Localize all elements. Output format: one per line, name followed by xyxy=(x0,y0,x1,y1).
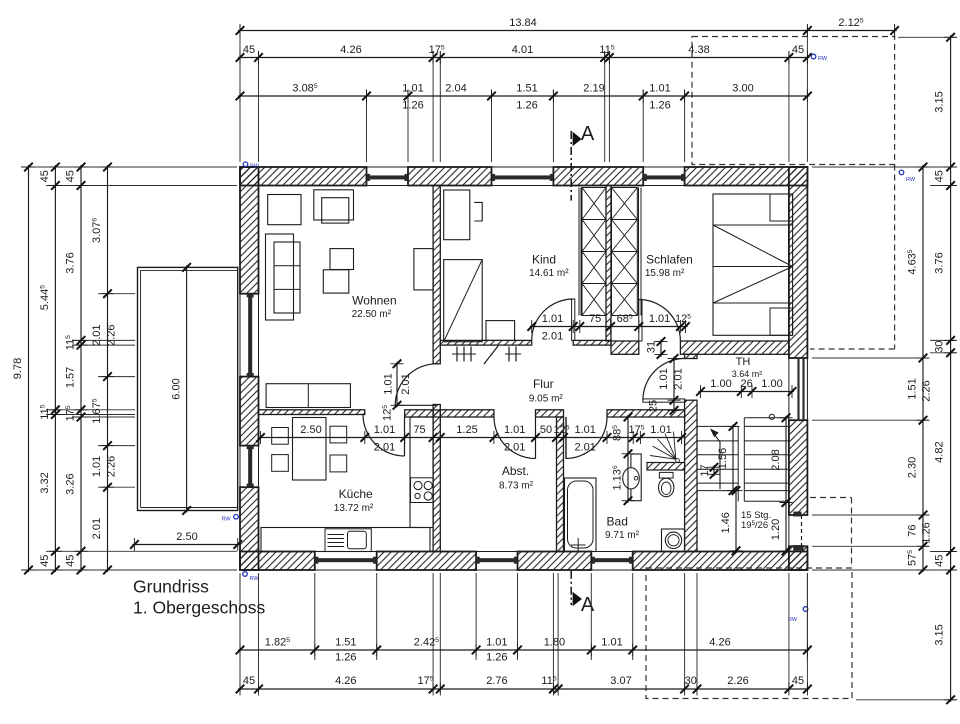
svg-text:2.26: 2.26 xyxy=(921,380,933,401)
svg-text:1.01: 1.01 xyxy=(649,83,670,95)
svg-text:Kind: Kind xyxy=(532,253,556,267)
furniture: Schlafen wardrobe (X boxes) xyxy=(612,188,638,220)
dim: TH door vertical xyxy=(673,357,675,413)
wall: Schlafen/TH bottom wall xyxy=(680,341,789,354)
svg-text:45: 45 xyxy=(934,555,946,567)
svg-text:1.26: 1.26 xyxy=(921,522,933,543)
radiator symbol in Flur xyxy=(456,347,458,362)
svg-text:TH: TH xyxy=(736,356,751,368)
window: top wall Wohnen xyxy=(367,166,409,168)
furniture: Kueche counter east xyxy=(410,417,433,528)
svg-text:45: 45 xyxy=(934,170,946,182)
svg-text:3.76: 3.76 xyxy=(65,252,77,273)
svg-text:4.38: 4.38 xyxy=(688,44,709,56)
dim: stairs 1.20 xyxy=(785,501,787,554)
furniture: Kind wardrobe (X boxes) xyxy=(582,188,606,220)
wall: outer right, lower segment xyxy=(789,546,808,570)
wall: outer bottom, segment 3 xyxy=(518,552,592,571)
extension lines top xyxy=(239,25,241,162)
svg-text:45: 45 xyxy=(792,675,804,687)
svg-text:9.71 m²: 9.71 m² xyxy=(605,530,640,541)
dim chain: left overall 9.78 xyxy=(28,165,30,572)
stairs: walk line with arrow xyxy=(712,431,721,490)
wall: outer top, east segment xyxy=(685,167,808,186)
svg-text:9.05 m²: 9.05 m² xyxy=(529,394,564,405)
dashed outline: top-right area xyxy=(692,37,895,165)
svg-text:3.00: 3.00 xyxy=(732,83,753,95)
svg-text:2.01: 2.01 xyxy=(91,518,103,539)
dim chain: TH interior 1.00/26/1.00 xyxy=(699,391,795,393)
svg-text:2.04: 2.04 xyxy=(445,83,466,95)
svg-text:1.01: 1.01 xyxy=(574,424,595,436)
svg-text:76: 76 xyxy=(907,524,919,536)
dashed line: right side vertical x=894.6 xyxy=(894,165,896,350)
svg-text:1.01: 1.01 xyxy=(486,637,507,649)
window: top wall Schlafen xyxy=(643,166,684,168)
svg-text:195/26: 195/26 xyxy=(741,520,768,531)
svg-text:2.26: 2.26 xyxy=(727,675,748,687)
svg-text:1.26: 1.26 xyxy=(402,100,423,112)
dim: stair tread 17 xyxy=(713,465,715,476)
svg-text:1.01: 1.01 xyxy=(383,373,395,394)
wall: Wohnen/Kind partition upper xyxy=(433,186,440,364)
svg-text:A: A xyxy=(581,123,595,145)
svg-text:1.01: 1.01 xyxy=(504,424,525,436)
svg-text:RW: RW xyxy=(250,576,260,582)
window: bottom wall Abst xyxy=(476,551,517,553)
stairs: newel circle xyxy=(769,414,774,419)
furniture: Wohnen sideboard east xyxy=(414,249,433,290)
wall: Kueche/Abst partition xyxy=(433,410,440,552)
wall: outer bottom, Kueche segment xyxy=(240,552,315,571)
svg-text:1.51: 1.51 xyxy=(907,378,919,399)
svg-text:26: 26 xyxy=(740,378,752,390)
wall: Flur south wall Abst/Bad piece xyxy=(536,410,564,417)
dim chain: top wall axes xyxy=(238,57,809,59)
svg-text:1.57: 1.57 xyxy=(65,367,77,388)
svg-text:3.15: 3.15 xyxy=(934,91,946,112)
dim chain: bottom openings xyxy=(238,649,809,651)
svg-text:2.76: 2.76 xyxy=(486,675,507,687)
door arc: Abst door xyxy=(494,417,536,459)
svg-text:1.80: 1.80 xyxy=(544,637,565,649)
svg-text:1.20: 1.20 xyxy=(770,519,782,540)
wall: Bad north wall xyxy=(607,410,685,417)
door arc: Kind door with leaf xyxy=(532,299,574,340)
furniture: Wohnen sofa 2 (south wall) xyxy=(266,384,350,408)
svg-text:Schlafen: Schlafen xyxy=(646,253,693,267)
svg-text:Küche: Küche xyxy=(339,487,373,501)
svg-text:2.19: 2.19 xyxy=(583,83,604,95)
svg-text:Wohnen: Wohnen xyxy=(352,294,396,308)
wall: shower stub wall xyxy=(647,463,685,471)
dim chain: left openings xyxy=(107,165,109,572)
wall: Kind/Schlafen partition xyxy=(606,186,611,342)
furniture: Kueche sink xyxy=(325,529,371,552)
dashed line: x=851.5 xyxy=(851,498,853,569)
svg-text:15.98 m²: 15.98 m² xyxy=(645,268,685,279)
svg-text:14.61 m²: 14.61 m² xyxy=(529,268,569,279)
wall: Flur south wall west of Abst door xyxy=(440,410,494,417)
wall: TH/stair west wall xyxy=(685,400,697,551)
svg-text:RW: RW xyxy=(250,164,260,170)
door arc: Wohnen door xyxy=(395,364,437,406)
extension lines left xyxy=(21,166,237,168)
furniture: Kind chair xyxy=(474,202,482,221)
wall: Kueche door east pier xyxy=(405,410,433,417)
svg-text:2.01: 2.01 xyxy=(504,442,525,454)
balcony outline xyxy=(138,267,238,510)
svg-text:13.72 m²: 13.72 m² xyxy=(334,503,374,514)
RW marker right xyxy=(899,170,904,175)
svg-text:45: 45 xyxy=(39,555,51,567)
svg-text:1.46: 1.46 xyxy=(720,512,732,533)
furniture: Wohnen sofa (left wall) xyxy=(266,234,294,320)
svg-text:8.73 m²: 8.73 m² xyxy=(499,481,534,492)
svg-text:1.56: 1.56 xyxy=(717,448,729,469)
RW marker balcony xyxy=(234,515,239,520)
wall: Wohnen door pier xyxy=(433,405,440,418)
wall: Kind bottom east of door xyxy=(573,340,611,345)
svg-text:1.01: 1.01 xyxy=(658,368,670,389)
svg-text:31: 31 xyxy=(646,341,658,353)
svg-text:1.01: 1.01 xyxy=(649,313,670,325)
door arc: Bad door xyxy=(566,417,608,459)
dim: stairs 1.56 xyxy=(732,424,734,492)
furniture: Bad sink xyxy=(623,468,640,489)
svg-text:45: 45 xyxy=(65,555,77,567)
svg-text:Bad: Bad xyxy=(607,514,628,528)
svg-text:2.01: 2.01 xyxy=(91,324,103,345)
dim: stairs 1.46 xyxy=(735,489,737,553)
svg-text:1.01: 1.01 xyxy=(650,424,671,436)
svg-text:45: 45 xyxy=(39,170,51,182)
svg-text:RW: RW xyxy=(818,56,828,62)
dashed line: y=349 toward building xyxy=(810,348,895,350)
svg-text:1.51: 1.51 xyxy=(335,637,356,649)
window: right wall TH window (double glazing bars) xyxy=(788,358,790,420)
svg-text:1.26: 1.26 xyxy=(516,100,537,112)
svg-text:25: 25 xyxy=(648,400,660,412)
svg-text:9.78: 9.78 xyxy=(12,358,24,379)
wall: TH west wall stub above door xyxy=(685,354,697,358)
wall: outer top, Kind/Schlafen segment xyxy=(553,167,643,186)
svg-text:1.00: 1.00 xyxy=(761,378,782,390)
stairs: treads right flight xyxy=(744,417,789,419)
extension lines right xyxy=(898,36,956,38)
extension lines bottom xyxy=(239,573,241,660)
window: left wall Kueche window xyxy=(239,446,241,488)
furniture: Kueche counter bottom xyxy=(261,528,430,552)
svg-text:1.26: 1.26 xyxy=(335,652,356,664)
dim: Schlafen/TH wall 31 xyxy=(660,340,662,357)
svg-text:2.50: 2.50 xyxy=(176,531,197,543)
dashed line: y=497.5 xyxy=(810,497,852,499)
dim: balcony 2.50 xyxy=(132,544,239,546)
dim chain: interior Flur/Kueche/Bad doors xyxy=(259,437,684,439)
svg-text:2.01: 2.01 xyxy=(542,331,563,343)
svg-text:2.50: 2.50 xyxy=(300,424,321,436)
dim: Wohnen door vertical xyxy=(396,362,398,408)
furniture: Kind bed with diagonal xyxy=(444,260,483,342)
wall: outer top, west segment xyxy=(240,167,367,186)
furniture: Bad half wall stub xyxy=(631,454,641,501)
svg-text:3.07: 3.07 xyxy=(610,675,631,687)
svg-text:1. Obergeschoss: 1. Obergeschoss xyxy=(133,598,266,618)
furniture: Wohnen armchair 1 xyxy=(268,195,301,225)
wall: Schlafen bottom west of door xyxy=(611,341,639,354)
svg-text:45: 45 xyxy=(243,44,255,56)
dim: Bad niche 88.5 and 1.13 xyxy=(627,415,629,503)
svg-text:45: 45 xyxy=(243,675,255,687)
svg-text:4.82: 4.82 xyxy=(934,441,946,462)
dim chain: bottom wall axes xyxy=(238,688,809,690)
svg-text:3.15: 3.15 xyxy=(934,624,946,645)
furniture: Schlafen double bed xyxy=(713,194,793,335)
furniture: Kueche dining table xyxy=(293,418,327,481)
dim chain: left no.2 xyxy=(54,165,56,572)
RW marker bottom-right xyxy=(803,607,808,612)
svg-text:1.01: 1.01 xyxy=(374,424,395,436)
svg-text:1.01: 1.01 xyxy=(601,637,622,649)
svg-text:3.64 m²: 3.64 m² xyxy=(732,369,763,379)
svg-text:75: 75 xyxy=(589,313,601,325)
door arc: Kueche door xyxy=(363,415,405,457)
svg-text:1.00: 1.00 xyxy=(710,378,731,390)
furniture: Wohnen coffee tables xyxy=(330,249,354,270)
window: top wall Kind xyxy=(492,166,554,168)
wall: outer bottom, segment 2 xyxy=(377,552,476,571)
svg-text:17: 17 xyxy=(699,464,711,476)
svg-text:Grundriss: Grundriss xyxy=(133,577,209,597)
wall: outer left, lower segment xyxy=(240,487,259,570)
section marker A (top) xyxy=(570,131,572,201)
bathtub faucet cross xyxy=(571,544,586,546)
wall: outer top, Wohnen/Kind segment xyxy=(408,167,492,186)
svg-text:22.50 m²: 22.50 m² xyxy=(352,309,392,320)
svg-text:2.30: 2.30 xyxy=(907,457,919,478)
furniture: Kueche chairs xyxy=(272,428,289,445)
svg-text:1.51: 1.51 xyxy=(516,83,537,95)
svg-text:RW: RW xyxy=(222,517,232,523)
svg-text:1.01: 1.01 xyxy=(402,83,423,95)
svg-text:3.76: 3.76 xyxy=(934,252,946,273)
section marker A (bottom) xyxy=(570,571,572,605)
svg-text:13.84: 13.84 xyxy=(509,17,537,29)
furniture: bathtub xyxy=(565,478,597,552)
svg-text:2.01: 2.01 xyxy=(574,442,595,454)
dim chain: right openings xyxy=(922,165,924,572)
svg-text:1.01: 1.01 xyxy=(542,313,563,325)
svg-text:Flur: Flur xyxy=(533,377,554,391)
window: balcony door in left wall xyxy=(239,294,241,377)
svg-text:2.08: 2.08 xyxy=(770,449,782,470)
svg-text:RW: RW xyxy=(906,177,916,183)
dashed outline: bottom-right area xyxy=(646,568,852,699)
furniture: washing machine xyxy=(662,529,685,552)
svg-text:75: 75 xyxy=(413,424,425,436)
dim chain: left no.3 xyxy=(80,165,82,572)
furniture: toilet xyxy=(659,472,673,478)
shower spray symbol xyxy=(676,459,680,463)
furniture: Wohnen armchair 2 with ottoman xyxy=(314,190,354,220)
svg-text:2.26: 2.26 xyxy=(106,456,118,477)
furniture: Kind side table xyxy=(486,321,515,341)
wall: outer left, middle segment xyxy=(240,377,259,446)
dim chain: Kind/Schlafen doors + wardrobes xyxy=(530,326,688,328)
svg-text:30: 30 xyxy=(685,675,697,687)
stairs: middle stringers xyxy=(737,426,739,501)
furniture: Kind desk xyxy=(444,190,470,240)
svg-text:1.26: 1.26 xyxy=(486,652,507,664)
opening: entry door in right wall below stairs xyxy=(788,515,790,546)
RW marker top-left xyxy=(243,162,248,167)
svg-text:4.26: 4.26 xyxy=(335,675,356,687)
svg-text:2.01: 2.01 xyxy=(400,373,412,394)
dim chain: right outer xyxy=(950,35,952,702)
svg-text:2.01: 2.01 xyxy=(374,442,395,454)
svg-text:50: 50 xyxy=(540,424,552,436)
svg-text:3.32: 3.32 xyxy=(39,472,51,493)
svg-text:45: 45 xyxy=(792,44,804,56)
RW marker bottom-left xyxy=(243,572,248,577)
dim chain: top openings xyxy=(238,95,809,97)
wall: outer right, middle segment xyxy=(789,420,808,515)
svg-text:1.25: 1.25 xyxy=(456,424,477,436)
stairs: treads left flight xyxy=(697,425,738,427)
svg-text:6.00: 6.00 xyxy=(171,378,183,399)
dim: stairs 2.08 xyxy=(785,416,787,505)
window: bottom wall Bad xyxy=(591,551,632,553)
wall: outer bottom, east segment xyxy=(633,552,808,571)
svg-text:45: 45 xyxy=(65,170,77,182)
wall: outer left, upper segment xyxy=(240,167,259,294)
svg-text:2.01: 2.01 xyxy=(673,368,685,389)
wall: outer right, upper segment xyxy=(789,167,808,358)
dim: balcony 6.00 xyxy=(186,265,188,512)
RW marker top carport xyxy=(811,54,816,59)
svg-text:1.01: 1.01 xyxy=(91,456,103,477)
wall: Abst/Bad partition xyxy=(557,417,564,552)
wall: Kind bottom west of door xyxy=(440,340,531,345)
furniture: Kueche stove with burners xyxy=(411,478,434,503)
wall: Kueche top wall xyxy=(259,410,365,415)
window: bottom wall Kueche xyxy=(315,551,377,553)
svg-text:4.26: 4.26 xyxy=(709,637,730,649)
svg-text:RW: RW xyxy=(788,617,798,623)
svg-text:30: 30 xyxy=(934,340,946,352)
door arc: TH door with leaf xyxy=(643,359,685,401)
svg-text:A: A xyxy=(581,594,595,616)
door arc: Schlafen door with leaf xyxy=(639,300,681,342)
svg-text:2.26: 2.26 xyxy=(106,324,118,345)
svg-text:1.26: 1.26 xyxy=(649,100,670,112)
svg-text:4.26: 4.26 xyxy=(340,44,361,56)
svg-text:3.26: 3.26 xyxy=(65,473,77,494)
svg-text:4.01: 4.01 xyxy=(512,44,533,56)
svg-text:Abst.: Abst. xyxy=(502,464,529,478)
dim chain: top overall 13.84 / 2.12 xyxy=(238,30,897,32)
